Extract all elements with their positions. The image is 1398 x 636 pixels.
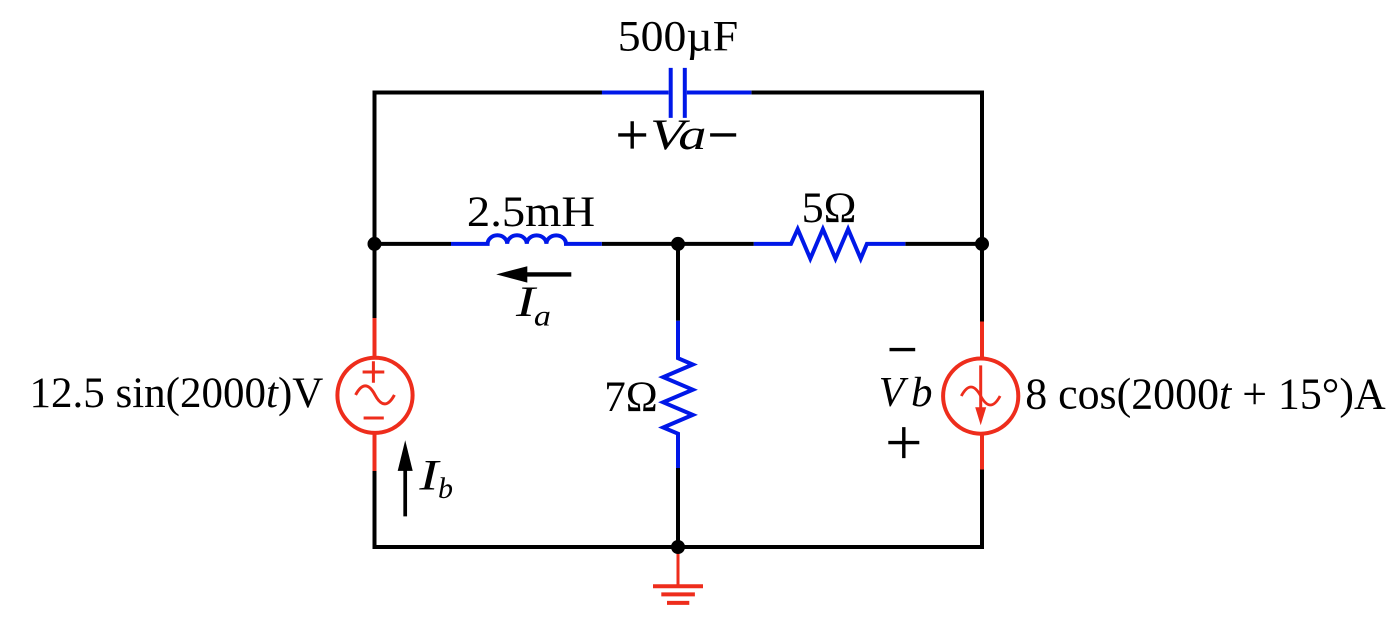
svg-text:500µF: 500µF [618,14,738,61]
svg-text:8 cos(2000t + 15°)A: 8 cos(2000t + 15°)A [1025,370,1386,418]
svg-text:b: b [911,370,933,416]
svg-text:7Ω: 7Ω [604,374,657,421]
svg-text:2.5mH: 2.5mH [467,189,595,236]
svg-text:5Ω: 5Ω [802,185,857,232]
svg-text:b: b [438,472,453,505]
svg-text:12.5 sin(2000t)V: 12.5 sin(2000t)V [30,370,324,417]
svg-text:Va: Va [650,112,707,159]
svg-text:a: a [534,300,551,333]
svg-text:V: V [879,370,909,416]
